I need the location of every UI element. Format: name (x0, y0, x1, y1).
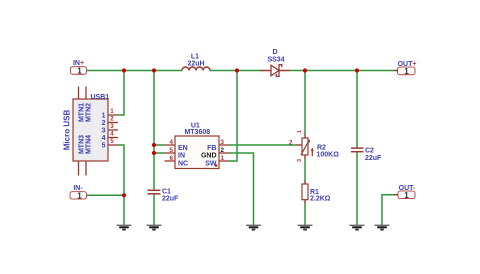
inductor L1 22uH (182, 54, 210, 71)
D cathode pin (279, 70, 290, 72)
USB1 MTN2 pin stub (85, 87, 87, 100)
USB1 pin 1 stub (108, 114, 118, 116)
connector OUT+ (394, 61, 416, 76)
wire: C1 bottom to ground (153, 194, 155, 225)
wire: U1 GND pin down to ground (229, 153, 254, 225)
wire: IN- junction down to ground (123, 195, 125, 225)
ground symbol (IN- / USB shield) (117, 225, 132, 229)
junction on rail at IN node (152, 68, 156, 72)
ground symbol (C1) (147, 225, 162, 229)
wire: connector OUT- to ground (382, 195, 394, 225)
svg-text:3: 3 (110, 123, 114, 130)
OUT- pin stub (394, 194, 398, 196)
svg-text:1: 1 (404, 67, 409, 76)
svg-text:1: 1 (102, 113, 106, 120)
USB connector USB1 Micro USB (62, 87, 118, 176)
svg-text:22uH: 22uH (187, 61, 204, 68)
svg-text:3: 3 (102, 128, 106, 135)
svg-text:5: 5 (170, 147, 174, 154)
svg-text:2.2KΩ: 2.2KΩ (310, 196, 331, 203)
svg-text:C2: C2 (365, 147, 374, 154)
R2 pin 1 stub (304, 134, 306, 138)
OUT+ pin stub (394, 70, 398, 72)
ground symbol (C2) (350, 225, 365, 229)
svg-text:22uF: 22uF (162, 195, 179, 202)
junction on rail at USB1 pin 1 drop (122, 68, 126, 72)
USB1 body (73, 99, 108, 161)
wire: rail down to C2 top (356, 71, 358, 148)
wire: IN+ rail from connector IN+ to L1 (87, 70, 183, 72)
junction at IN- net (122, 193, 126, 197)
ground symbol (R1) (298, 225, 313, 229)
svg-text:1: 1 (297, 130, 303, 133)
svg-text:SS34: SS34 (267, 56, 284, 63)
wire: USB1 pin 5 down to IN- net (118, 145, 124, 195)
svg-text:MTN3: MTN3 (78, 135, 85, 154)
ground symbol (U1 GND) (246, 225, 261, 229)
USB1 MTN3 pin stub (78, 161, 80, 176)
svg-text:3: 3 (221, 139, 225, 146)
R1 bottom pin stub (304, 200, 306, 203)
svg-text:2: 2 (221, 147, 225, 154)
svg-text:1: 1 (77, 67, 82, 76)
svg-text:GND: GND (201, 153, 217, 160)
junction on rail at SW node (235, 68, 239, 72)
L1 winding body (182, 67, 210, 70)
ground symbol (OUT-) (375, 225, 390, 229)
svg-text:2: 2 (102, 120, 106, 127)
wire: U1 FB to R2 wiper (229, 144, 298, 146)
svg-text:L1: L1 (191, 54, 199, 61)
svg-text:MTN4: MTN4 (85, 135, 92, 154)
D schottky cathode bar (276, 65, 282, 77)
svg-text:D: D (272, 49, 277, 56)
svg-text:1: 1 (404, 191, 409, 200)
U1 pin 1 stub (SW) (219, 160, 229, 162)
svg-text:3: 3 (297, 159, 303, 162)
R2 pin 2 wiper stub (297, 144, 303, 146)
wire: OUT+ rail from diode D cathode to connector OUT+ (290, 70, 394, 72)
capacitor C2 22uF (351, 147, 382, 162)
svg-text:1: 1 (221, 155, 225, 162)
svg-text:IN: IN (178, 153, 185, 160)
wire: IN net to U1 pin EN (154, 144, 165, 146)
svg-text:NC: NC (178, 161, 188, 168)
USB1 MTN4 pin stub (85, 161, 87, 176)
svg-text:5: 5 (102, 143, 106, 150)
D triangle (271, 65, 279, 76)
OUT- body (398, 191, 415, 199)
C2 bottom plate (351, 151, 364, 153)
IN- body (70, 192, 87, 199)
R1 body (302, 184, 308, 200)
R2 body (302, 138, 308, 155)
wire: R1 bottom to ground (304, 203, 306, 225)
U1 pin 2 stub (GND) (219, 152, 229, 154)
svg-text:Micro USB: Micro USB (62, 110, 71, 151)
USB1 MTN1 pin stub (78, 87, 80, 100)
wire: U1 SW pin up to rail (229, 71, 238, 162)
R2 pin 3 stub (304, 155, 306, 159)
potentiometer R2 100K (289, 130, 339, 162)
svg-text:FB: FB (207, 145, 216, 152)
svg-text:4: 4 (110, 131, 114, 138)
C2 top plate (351, 147, 364, 149)
wire: rail down to R2 pin 1 (304, 71, 306, 135)
U1 pin 3 stub (FB) (219, 144, 229, 146)
wire: R2 pin 3 to R1 top (304, 159, 306, 182)
U1 pin 6 stub (NC) (165, 160, 176, 162)
IN+ body (71, 67, 87, 75)
svg-text:EN: EN (178, 145, 188, 152)
OUT+ body (398, 67, 416, 75)
wire: IN net to U1 pin IN (154, 152, 165, 154)
U1 pin 5 stub (IN) (165, 152, 176, 154)
wire: connector IN- to IN- junction (87, 194, 125, 196)
svg-text:2: 2 (289, 139, 293, 146)
R2 adjustment diagonal arrow (301, 141, 309, 155)
USB1 pin 3 stub (108, 129, 118, 131)
diode D SS34 (schottky) (261, 49, 291, 76)
USB1 pin 5 stub (108, 144, 118, 146)
resistor R1 2.2K (302, 181, 331, 203)
svg-text:C1: C1 (162, 188, 171, 195)
svg-text:MT3608: MT3608 (184, 129, 210, 136)
svg-text:R2: R2 (317, 144, 326, 151)
svg-text:1: 1 (110, 108, 114, 115)
C1 bottom plate (148, 193, 161, 195)
svg-text:MTN1: MTN1 (78, 103, 85, 122)
svg-text:MTN2: MTN2 (85, 103, 92, 122)
svg-text:4: 4 (102, 135, 106, 142)
connector IN+ (71, 60, 87, 75)
svg-text:2: 2 (110, 116, 114, 123)
svg-text:100KΩ: 100KΩ (317, 152, 340, 159)
svg-text:22uF: 22uF (365, 155, 382, 162)
svg-text:6: 6 (170, 155, 174, 162)
U1 pin 4 stub (EN) (165, 144, 176, 146)
IC U1 MT3608 (165, 123, 229, 169)
svg-text:4: 4 (170, 139, 174, 146)
connector IN- (70, 185, 87, 200)
capacitor C1 22uF (148, 188, 180, 202)
U1 pin 1 marker dot (215, 164, 218, 167)
wire: C2 bottom to ground (356, 152, 358, 225)
junction at U1 IN pin (152, 151, 156, 155)
C1 top plate (148, 189, 161, 191)
D anode pin (261, 70, 272, 72)
wire: IN net vertical from rail to C1 (153, 71, 155, 190)
R2 up arrow mark (311, 150, 313, 156)
junction on rail at C2 drop (355, 68, 359, 72)
connector OUT- (394, 185, 416, 200)
wire: rail segment L1 to diode D anode (210, 70, 262, 72)
R1 top pin stub (304, 181, 306, 184)
junction on rail at R2 drop (303, 68, 307, 72)
svg-text:1: 1 (77, 191, 82, 200)
wire: IN+ rail drop to USB1 pin 1 (118, 71, 124, 116)
svg-text:5: 5 (110, 138, 114, 145)
USB1 pin 2 stub (108, 122, 118, 124)
svg-text:USB1: USB1 (91, 94, 110, 101)
junction at U1 EN pin (152, 143, 156, 147)
USB1 pin 4 stub (108, 137, 118, 139)
U1 body (175, 136, 219, 169)
